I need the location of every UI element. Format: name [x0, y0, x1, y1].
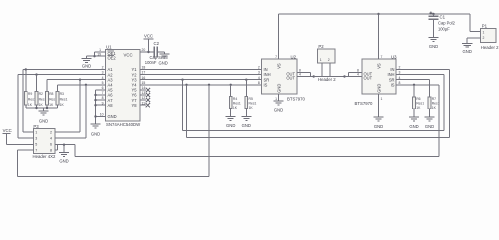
svg-text:2: 2	[50, 131, 52, 135]
wire P3 pin1 stub	[23, 131, 33, 133]
junction dot P3 ground stem	[63, 144, 65, 146]
svg-text:GND: GND	[409, 124, 418, 129]
svg-text:GND: GND	[274, 107, 283, 112]
wire pin20 to C2	[149, 51, 154, 53]
wire row A1	[23, 69, 106, 71]
svg-text:1K: 1K	[249, 106, 254, 110]
svg-text:Header 4X2: Header 4X2	[33, 154, 57, 159]
svg-text:1K: 1K	[28, 103, 33, 107]
svg-text:Header 2: Header 2	[318, 77, 336, 82]
svg-text:BTS7970: BTS7970	[287, 96, 306, 101]
junction dot R4 tap	[230, 84, 232, 86]
no-connect X Y6	[146, 93, 150, 97]
half-bridge driver U3	[362, 54, 397, 94]
U1 pin 19 stub	[95, 55, 106, 57]
buffer U1	[106, 45, 141, 121]
ground OE	[81, 59, 91, 63]
resistor R9	[24, 92, 27, 106]
ground P1	[462, 43, 473, 47]
wire riser P3 pin1	[22, 70, 24, 133]
svg-text:GND: GND	[91, 131, 100, 136]
junction dot motor left	[313, 75, 315, 77]
svg-text:VCC: VCC	[3, 128, 12, 133]
junction dot C1 on rail	[432, 13, 434, 15]
svg-text:2: 2	[258, 66, 260, 70]
U1 A5 stub	[96, 89, 106, 91]
U3 GND pin wire	[378, 94, 380, 117]
svg-text:IS: IS	[391, 82, 395, 87]
svg-text:IS: IS	[264, 82, 268, 87]
U1 A7 stub	[96, 99, 106, 101]
svg-text:U3: U3	[391, 54, 397, 59]
svg-text:GND: GND	[242, 123, 251, 128]
svg-text:1K: 1K	[432, 106, 437, 110]
junction dot wrap net A	[181, 79, 183, 81]
wire resistor commons	[25, 105, 27, 108]
junction dot R2 tap	[35, 73, 37, 75]
svg-text:GND: GND	[377, 84, 382, 93]
wire P2 pin1 drop	[321, 63, 323, 77]
U3 OUT upper stub	[348, 72, 362, 74]
svg-text:P2: P2	[318, 44, 324, 49]
wire Y8 stub	[140, 104, 146, 106]
svg-text:R8: R8	[49, 92, 53, 96]
resistor R8	[46, 92, 49, 106]
svg-text:4: 4	[50, 137, 52, 141]
svg-text:Res1: Res1	[60, 98, 68, 102]
wire row Y1 (U1.Y1 to U2.IN)	[140, 69, 262, 71]
svg-text:U1: U1	[106, 45, 112, 50]
wire R4 to ground	[230, 109, 232, 117]
wire R4 riser	[230, 85, 232, 97]
resistor R5	[245, 97, 248, 109]
svg-text:VS: VS	[277, 63, 282, 69]
svg-text:1K: 1K	[233, 106, 238, 110]
U2 OUT lower stub	[297, 76, 314, 78]
U2 VS pin wire to top rail	[278, 14, 280, 59]
svg-text:C1: C1	[440, 15, 446, 20]
wire row A4	[58, 84, 106, 86]
svg-text:GND: GND	[425, 124, 434, 129]
svg-text:1: 1	[483, 30, 485, 34]
header P3	[33, 124, 55, 154]
wire P3 pin3 stub	[18, 137, 33, 139]
svg-text:OE2: OE2	[108, 56, 117, 61]
svg-text:VCC: VCC	[124, 53, 133, 58]
ground U3	[374, 117, 384, 121]
wire C1 to ground	[433, 19, 435, 37]
junction dot R6 tap	[413, 84, 415, 86]
svg-text:OUT: OUT	[364, 76, 373, 81]
svg-text:4: 4	[299, 73, 301, 77]
ground U2	[274, 101, 284, 105]
junction dot motor right	[343, 75, 345, 77]
svg-text:R4: R4	[233, 97, 237, 101]
svg-text:20: 20	[142, 48, 146, 52]
junction dot U3 VS on rail	[377, 13, 379, 15]
svg-text:VCC: VCC	[144, 33, 153, 38]
wire riser P3 pin3	[17, 75, 19, 139]
wire R9 riser	[25, 70, 27, 92]
svg-text:GND: GND	[59, 158, 68, 163]
wire motor net	[314, 76, 345, 78]
svg-text:1K: 1K	[60, 103, 65, 107]
wire R7 to ground	[429, 109, 431, 117]
header P1	[481, 24, 496, 43]
wire U3 IS row	[396, 84, 439, 86]
junction dot R5 tap	[245, 79, 247, 81]
ground resistor bank	[39, 111, 49, 115]
wire top supply rail	[279, 13, 471, 15]
svg-text:R2: R2	[39, 92, 43, 96]
svg-text:1K: 1K	[416, 106, 421, 110]
U1 A8 stub	[96, 104, 106, 106]
wire unused-input ground tie	[95, 90, 97, 124]
no-connect X Y8	[146, 103, 150, 107]
svg-text:R3: R3	[60, 92, 64, 96]
junction dot pin20 node	[147, 51, 149, 53]
wire row Y2 (U1.Y2 to U2.INH)	[140, 74, 262, 76]
svg-text:2: 2	[483, 36, 485, 40]
svg-text:2: 2	[328, 58, 330, 62]
svg-text:OUT: OUT	[286, 76, 295, 81]
ground R5	[241, 116, 251, 120]
junction dot R9 tap	[25, 68, 27, 70]
wire Y6 stub	[140, 94, 146, 96]
wire row Y4 (U1.Y4 to U2.IS)	[140, 84, 262, 86]
wire wrap net D (P3 even pins / U3.IS)	[438, 85, 440, 157]
resistor R2	[35, 92, 38, 106]
svg-text:VS: VS	[377, 63, 382, 69]
junction dot net A3 branch	[79, 79, 81, 81]
svg-text:GND: GND	[108, 114, 117, 119]
wire P3 even bus	[57, 145, 59, 150]
wire P1 pin2 to ground	[467, 37, 481, 39]
junction dot OE	[93, 55, 95, 57]
U2 OUT upper stub	[297, 72, 311, 74]
wire branch row A3 to P3 pin2	[79, 80, 81, 132]
header P2	[318, 44, 335, 63]
wire row A2	[18, 74, 106, 76]
U3 right pin numbers	[399, 66, 401, 85]
wire row A3	[47, 79, 106, 81]
wire wrap net C (Y4 row to P3 pin7)	[208, 85, 210, 177]
wire P2 pin2 drop	[329, 63, 331, 77]
svg-text:1: 1	[381, 97, 383, 101]
wire VCC to P3 pin5	[7, 144, 34, 146]
svg-text:Y8: Y8	[131, 103, 137, 108]
wire U3 SR row to R7	[396, 79, 430, 81]
wire wrap net A (Y3 row to U3.INH)	[182, 80, 184, 131]
wire Y5 stub	[140, 89, 146, 91]
svg-text:Cap Pol2: Cap Pol2	[438, 21, 456, 26]
svg-text:8: 8	[357, 69, 359, 73]
wire R6 to ground	[413, 109, 415, 117]
junction dots ground tie	[94, 94, 96, 96]
svg-text:100nF: 100nF	[145, 60, 157, 65]
junction dot wrap net B	[185, 84, 187, 86]
no-connect X Y7	[146, 98, 150, 102]
svg-text:1K: 1K	[49, 103, 54, 107]
svg-text:R5: R5	[249, 97, 253, 101]
svg-text:8: 8	[50, 149, 52, 153]
svg-text:Header 2: Header 2	[481, 45, 499, 50]
wire P3 pin8 stub	[55, 149, 58, 151]
svg-text:BTS7970: BTS7970	[355, 101, 374, 106]
U3 OUT lower stub	[345, 76, 363, 78]
wire R2 riser	[36, 75, 38, 92]
svg-text:R9: R9	[28, 92, 32, 96]
svg-text:3: 3	[35, 137, 37, 141]
svg-text:GND: GND	[277, 84, 282, 93]
wire U3 IN row	[396, 69, 450, 71]
svg-text:A8: A8	[108, 103, 114, 108]
wire wrap net B (Y4 row to U3.IN)	[186, 85, 188, 138]
svg-text:GND: GND	[463, 49, 472, 54]
ground C2	[160, 54, 170, 58]
svg-text:1: 1	[320, 58, 322, 62]
svg-text:C2: C2	[154, 41, 160, 46]
wire OUT join U2	[310, 73, 312, 77]
wire R3 riser	[57, 85, 59, 92]
svg-text:GND: GND	[82, 63, 91, 68]
ground R4	[226, 116, 236, 120]
wire P3 pin7 stub	[18, 149, 34, 151]
resistor R6	[413, 97, 416, 109]
U3 VS pin wire to top rail	[378, 14, 380, 59]
U1 pin 20 stub	[140, 51, 149, 53]
wire row Y3 (U1.Y3 to U2.SR)	[140, 79, 262, 81]
wire P3 pin6 stub	[55, 144, 58, 146]
wire P3 ground stem	[63, 145, 65, 153]
wire U3 INH row	[396, 74, 444, 76]
half-bridge driver U2	[262, 54, 297, 94]
svg-text:GND: GND	[429, 44, 438, 49]
wire OE to ground	[87, 55, 95, 57]
junction dots resistor common	[35, 107, 37, 109]
U1 left pin numbers 2-9	[100, 66, 104, 117]
junction dot wrap net C	[208, 84, 210, 86]
svg-text:4: 4	[357, 73, 359, 77]
U1 pin 1 stub	[95, 51, 106, 53]
resistor R4	[229, 97, 232, 109]
capacitor C1	[433, 14, 435, 16]
ground R7	[425, 117, 435, 121]
svg-text:100µF: 100µF	[438, 27, 450, 32]
U1 right pin numbers 18-11	[142, 66, 146, 106]
ground R6	[409, 117, 419, 121]
ground U1 pin10	[91, 124, 101, 128]
wire R6 riser	[413, 85, 415, 97]
svg-text:7: 7	[35, 149, 37, 153]
wire OE tie vertical	[94, 52, 96, 56]
svg-text:R7: R7	[432, 97, 436, 101]
svg-text:8: 8	[258, 81, 260, 85]
svg-text:P3: P3	[33, 124, 39, 129]
svg-text:3: 3	[258, 71, 260, 75]
svg-text:1: 1	[35, 131, 37, 135]
ground P3	[59, 152, 69, 156]
svg-text:P1: P1	[482, 24, 488, 29]
svg-text:GND: GND	[374, 124, 383, 129]
svg-text:7: 7	[381, 55, 383, 59]
wire R5 riser	[245, 80, 247, 97]
svg-text:GND: GND	[39, 119, 48, 124]
wire R5 to ground	[245, 109, 247, 117]
wire branch row A4 to P3 pin4	[85, 85, 87, 138]
svg-text:SN74AHC540DW: SN74AHC540DW	[106, 122, 141, 127]
svg-text:6: 6	[50, 143, 52, 147]
ground C1	[429, 38, 439, 42]
wire OUT join U3	[347, 73, 349, 77]
U1 pin 10 GND stub	[96, 116, 106, 118]
junction dot net A4 branch	[85, 84, 87, 86]
wire Y7 stub	[140, 99, 146, 101]
svg-text:1K: 1K	[39, 103, 44, 107]
svg-text:GND: GND	[159, 61, 168, 66]
svg-text:4: 4	[258, 76, 260, 80]
svg-text:5: 5	[35, 143, 37, 147]
resistor R7	[428, 97, 431, 109]
svg-text:1: 1	[275, 97, 277, 101]
no-connect X Y5	[146, 88, 150, 92]
wire R8 riser	[46, 80, 48, 92]
svg-text:U2: U2	[291, 54, 297, 59]
svg-text:19: 19	[97, 52, 101, 56]
capacitor C2	[153, 47, 155, 58]
U2 left pin numbers	[258, 66, 260, 85]
U2 GND pin wire	[278, 94, 280, 101]
wire common to ground	[43, 108, 45, 111]
svg-text:7: 7	[275, 55, 277, 59]
U1 A6 stub	[96, 94, 106, 96]
svg-text:R6: R6	[416, 97, 420, 101]
wire C2 to ground	[158, 51, 165, 53]
resistor R3	[56, 92, 59, 106]
svg-text:GND: GND	[226, 123, 235, 128]
